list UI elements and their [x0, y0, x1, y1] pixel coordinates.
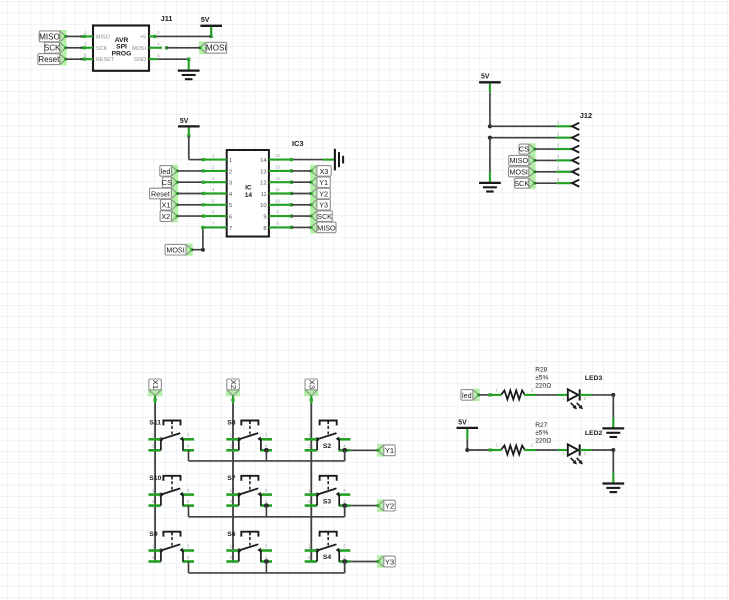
LED LED3: [562, 389, 586, 409]
svg-text:X2: X2: [161, 212, 170, 221]
svg-text:Y3: Y3: [385, 557, 394, 566]
wire S7 to row wire: [265, 506, 267, 517]
pushbutton S3: [305, 476, 351, 508]
pushbutton S2: [305, 421, 351, 453]
svg-text:11: 11: [275, 187, 280, 192]
wire IC3 pin 10 to Y3: [290, 203, 311, 206]
ground symbol (J11): [178, 71, 200, 80]
svg-text:Y3: Y3: [319, 201, 328, 210]
pushbutton S6: [226, 531, 272, 564]
5V power symbol (J12): [479, 74, 501, 83]
svg-text:IC: IC: [245, 185, 252, 192]
net label X1 (keypad column): [148, 379, 162, 396]
connector J11 AVR SPI PROG box: [93, 26, 149, 71]
svg-text:13: 13: [260, 169, 267, 175]
wire keypad column X1: [153, 396, 156, 562]
wire IC3 pin 9 to SCK: [290, 214, 311, 217]
svg-text:14: 14: [245, 192, 253, 199]
net label X3 (IC3 pin 13): [310, 165, 331, 177]
wire IC3 pin 8 to MISO: [290, 226, 311, 229]
svg-text:SCK: SCK: [96, 46, 107, 52]
svg-text:S11: S11: [149, 420, 161, 427]
svg-text:5V: 5V: [180, 118, 189, 125]
ground symbol (LED2): [602, 484, 624, 493]
ground symbol (J12): [479, 183, 501, 192]
wire flag to J11 pin 1: [66, 35, 86, 38]
wire flag to J11 pin 5: [66, 57, 86, 60]
svg-text:R27: R27: [535, 422, 547, 429]
svg-text:Reset: Reset: [38, 55, 60, 64]
wire IC3 pin 13 to X3: [290, 169, 311, 172]
net label CS (J12 pin 3): [519, 143, 536, 155]
wire S9 to row wire: [188, 562, 190, 573]
net label led (LED drive): [461, 389, 480, 401]
svg-text:S10: S10: [149, 475, 161, 482]
J11 left pins 1,3,5: [80, 30, 93, 59]
svg-text:J12: J12: [580, 111, 592, 120]
svg-text:X3: X3: [320, 167, 329, 176]
wire S8 to row wire: [265, 450, 267, 461]
net label Y3 (IC3 pin 10): [310, 199, 331, 211]
net label Reset (IC3 pin 4): [150, 187, 179, 199]
R27 value label: [535, 422, 551, 445]
svg-text:led: led: [462, 391, 472, 400]
wire J11 MOSI to flag: [165, 46, 200, 49]
wire MOSI to IC3 pin7: [192, 226, 205, 252]
svg-text:12: 12: [260, 181, 267, 187]
wire LED to ground: [580, 448, 616, 483]
svg-text:Y1: Y1: [319, 178, 328, 187]
net label CS (IC3 pin 3): [162, 176, 179, 188]
svg-text:IC3: IC3: [292, 139, 304, 148]
svg-text:R28: R28: [535, 367, 547, 374]
svg-text:S3: S3: [323, 498, 332, 505]
wire SCK to J12 pin 6: [535, 182, 556, 184]
pushbutton S11: [148, 420, 194, 451]
wire IC3 pin 12 to Y1: [290, 181, 311, 184]
J12 reference label: [580, 111, 592, 120]
svg-text:7: 7: [229, 226, 232, 232]
wire IC3 pin 11 to Y2: [290, 192, 311, 195]
svg-text:X1: X1: [162, 201, 171, 210]
svg-text:MISO: MISO: [39, 32, 60, 41]
svg-text:PROG: PROG: [112, 50, 132, 57]
wire J12 pin2 to ground: [488, 136, 556, 183]
net label Y2 (IC3 pin 11): [310, 187, 331, 199]
svg-text:J11: J11: [161, 14, 173, 23]
row wire Y2: [189, 506, 345, 517]
J11 reference label: [161, 14, 173, 23]
5V power symbol (LED2): [457, 419, 479, 428]
svg-text:S8: S8: [227, 420, 236, 427]
wire S10 to row wire: [188, 506, 190, 517]
R28 value label: [535, 367, 551, 390]
svg-text:10: 10: [275, 198, 280, 203]
IC3 reference label: [292, 139, 304, 148]
svg-text:MOSI: MOSI: [206, 44, 227, 53]
svg-text:RESET: RESET: [96, 57, 115, 63]
svg-text:SCK: SCK: [514, 179, 529, 188]
wire 5V to J12 pin1: [488, 83, 556, 128]
wire keypad column X3: [310, 396, 313, 562]
svg-text:220Ω: 220Ω: [535, 382, 551, 389]
pushbutton S4: [305, 532, 351, 564]
svg-text:X2: X2: [229, 380, 238, 389]
wire to R27: [489, 448, 502, 451]
svg-text:5V: 5V: [201, 17, 210, 24]
pushbutton S9: [148, 531, 194, 562]
wire MISO to J12 pin 4: [535, 159, 556, 161]
net label X2 (IC3 pin 6): [160, 210, 178, 222]
wire keypad column X2: [231, 396, 234, 562]
svg-text:Y2: Y2: [385, 502, 394, 511]
net label MOSI (J11): [199, 41, 227, 54]
5V power symbol (IC3): [178, 118, 200, 127]
svg-text:S2: S2: [323, 443, 332, 450]
wire S6 to row wire: [265, 562, 267, 573]
svg-text:220Ω: 220Ω: [535, 437, 551, 444]
wire S4 to row wire: [344, 562, 346, 573]
svg-text:SCK: SCK: [44, 44, 61, 53]
pushbutton S10: [148, 475, 194, 506]
row wire Y3: [189, 562, 345, 573]
svg-text:MISO: MISO: [317, 223, 336, 232]
svg-text:1: 1: [229, 158, 232, 164]
svg-text:9: 9: [263, 215, 266, 221]
wire LED to ground: [580, 393, 616, 428]
svg-text:CS: CS: [519, 145, 529, 154]
svg-text:+5: +5: [140, 35, 146, 41]
IC IC3 body: [227, 150, 269, 237]
wire J11 GND to ground: [158, 57, 191, 70]
svg-text:LED3: LED3: [585, 375, 603, 382]
net label Y1 (keypad row): [377, 444, 396, 457]
IC3 right pin stubs 14-8: [269, 153, 292, 227]
svg-text:10: 10: [260, 203, 267, 209]
wire X1 to IC3 pin 5: [177, 203, 205, 206]
wire resistor to LED: [524, 394, 568, 396]
net label Y2 (keypad row): [377, 499, 396, 512]
IC3 left pin stubs 1-7: [203, 153, 226, 227]
svg-text:11: 11: [261, 192, 267, 198]
wire S2 to row wire: [344, 450, 346, 461]
svg-text:±5%: ±5%: [535, 375, 548, 382]
svg-text:2: 2: [229, 169, 232, 175]
svg-text:MOSI: MOSI: [132, 46, 146, 52]
LED3 reference label: [585, 375, 603, 382]
row wire Y1: [189, 450, 345, 461]
svg-text:13: 13: [275, 165, 280, 170]
ground symbol (IC3): [335, 149, 343, 171]
net label X2 (keypad column): [226, 379, 240, 396]
net label MOSI (IC3 pin 7): [165, 244, 193, 256]
svg-text:S7: S7: [227, 475, 236, 482]
svg-text:Y1: Y1: [385, 446, 394, 455]
svg-text:S6: S6: [227, 531, 236, 538]
net label MISO (IC3 pin 8): [310, 221, 336, 233]
connector J12 pins 1-6: [556, 120, 579, 187]
wire 5V to IC3 pin1: [187, 128, 205, 162]
resistor R27 220 ohm: [496, 443, 535, 455]
resistor R28 220 ohm: [496, 388, 535, 400]
net label MISO (J11): [39, 30, 67, 43]
net label SCK (IC3 pin 9): [310, 210, 332, 222]
LED LED2: [562, 444, 586, 464]
svg-text:Reset: Reset: [151, 189, 170, 198]
wire S3 to row wire: [344, 506, 346, 517]
wire Reset to IC3 pin 4: [177, 192, 205, 195]
LED2 reference label: [585, 430, 603, 437]
svg-text:5V: 5V: [458, 419, 467, 426]
net label Reset (J11): [38, 53, 67, 66]
net label led (IC3 pin 2): [160, 165, 179, 177]
net label X1 (IC3 pin 5): [161, 199, 179, 211]
ground symbol (LED3): [602, 428, 624, 437]
svg-text:14: 14: [275, 153, 280, 158]
svg-text:Y2: Y2: [319, 189, 328, 198]
svg-text:SCK: SCK: [317, 212, 332, 221]
wire led to IC3 pin 2: [177, 169, 205, 172]
svg-text:14: 14: [260, 158, 267, 164]
net label X3 (keypad column): [304, 379, 318, 396]
svg-text:MOSI: MOSI: [166, 246, 184, 255]
wire led flag to R28: [479, 394, 490, 396]
svg-text:X3: X3: [307, 380, 316, 389]
wire MOSI to J12 pin 5: [535, 171, 556, 173]
wire flag to J11 pin 3: [66, 46, 86, 49]
net label MOSI (J12 pin 5): [509, 166, 536, 178]
5V power symbol (J11): [200, 17, 222, 26]
net label MISO (J12 pin 4): [509, 155, 536, 167]
wire S11 to row wire: [188, 450, 190, 461]
wire to R28: [489, 393, 502, 396]
J11 right pins 2,4,6: [149, 30, 162, 59]
net label Y1 (IC3 pin 12): [310, 176, 331, 188]
wire X2 to IC3 pin 6: [177, 214, 205, 217]
svg-text:S9: S9: [149, 531, 158, 538]
svg-text:CS: CS: [162, 178, 172, 187]
svg-text:led: led: [161, 167, 171, 176]
wire 5V to J11 +5: [153, 27, 213, 38]
wire IC3 pin14 to ground: [290, 158, 335, 161]
svg-text:MOSI: MOSI: [509, 167, 528, 176]
wire to net label Y2: [350, 505, 378, 507]
net label Y3 (keypad row): [377, 555, 396, 568]
svg-text:X1: X1: [151, 380, 160, 389]
wire 5V to R27: [465, 429, 490, 452]
svg-text:LED2: LED2: [585, 430, 603, 437]
svg-text:5V: 5V: [481, 74, 490, 81]
pushbutton S8: [226, 420, 272, 453]
wire CS to IC3 pin 3: [177, 181, 205, 184]
wire resistor to LED: [524, 449, 568, 451]
wire to net label Y3: [350, 561, 378, 563]
svg-text:GND: GND: [134, 57, 146, 63]
wire CS to J12 pin 3: [535, 148, 556, 150]
pushbutton S7: [226, 475, 272, 508]
net label SCK (J11): [44, 41, 67, 54]
net label SCK (J12 pin 6): [514, 177, 536, 189]
svg-text:±5%: ±5%: [535, 430, 548, 437]
svg-text:S4: S4: [323, 554, 332, 561]
svg-text:12: 12: [275, 176, 280, 181]
wire to net label Y1: [350, 449, 378, 451]
svg-text:MISO: MISO: [96, 35, 110, 41]
svg-text:MISO: MISO: [509, 156, 528, 165]
